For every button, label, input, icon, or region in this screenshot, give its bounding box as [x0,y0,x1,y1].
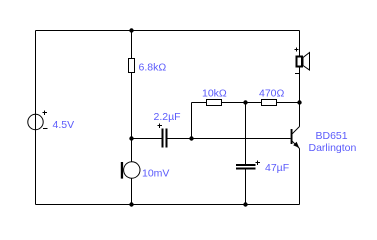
svg-text:BD651: BD651 [316,130,348,142]
svg-text:4.5V: 4.5V [53,119,75,131]
svg-text:10mV: 10mV [142,168,169,180]
svg-text:10kΩ: 10kΩ [202,88,227,100]
svg-text:2.2µF: 2.2µF [154,111,181,123]
svg-text:470Ω: 470Ω [259,88,285,100]
svg-text:6.8kΩ: 6.8kΩ [139,62,167,74]
svg-text:Darlington: Darlington [309,142,357,154]
svg-text:47µF: 47µF [265,162,289,174]
